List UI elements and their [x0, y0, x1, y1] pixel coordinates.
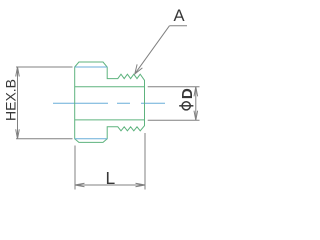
- svg-text:L: L: [105, 168, 115, 188]
- L arrow right: [136, 183, 146, 187]
- hex top chamfer line: [75, 66, 108, 68]
- phiD arrow down: [194, 111, 198, 121]
- thread root line bottom: [75, 119, 145, 121]
- centerline: [53, 102, 165, 104]
- A leader underline: [169, 25, 187, 27]
- phi symbol stem: [179, 105, 193, 107]
- A leader arrowhead: [135, 64, 143, 74]
- HEX.B arrow down: [16, 129, 20, 139]
- phi symbol circle: [182, 102, 190, 110]
- L extension line left: [74, 146, 76, 190]
- HEX.B extension line top: [16, 66, 73, 68]
- hex bottom chamfer line: [75, 138, 108, 140]
- HEX.B arrow up: [16, 67, 20, 77]
- svg-text:D: D: [179, 88, 196, 99]
- svg-text:HEX.B: HEX.B: [2, 79, 18, 121]
- phiD extension line bottom: [148, 119, 200, 121]
- L arrow left: [75, 183, 85, 187]
- phiD extension line top: [148, 86, 200, 88]
- HEX.B extension line bottom: [16, 138, 73, 140]
- thread root line top: [75, 86, 145, 88]
- phiD dimension line: [195, 87, 197, 120]
- svg-text:A: A: [173, 6, 185, 25]
- HEX.B dimension line: [17, 67, 19, 139]
- L dimension line: [75, 184, 145, 186]
- hex body and threaded outline: [75, 62, 145, 142]
- phiD arrow up: [194, 87, 198, 97]
- A leader line: [135, 26, 170, 74]
- L extension line right: [144, 133, 146, 190]
